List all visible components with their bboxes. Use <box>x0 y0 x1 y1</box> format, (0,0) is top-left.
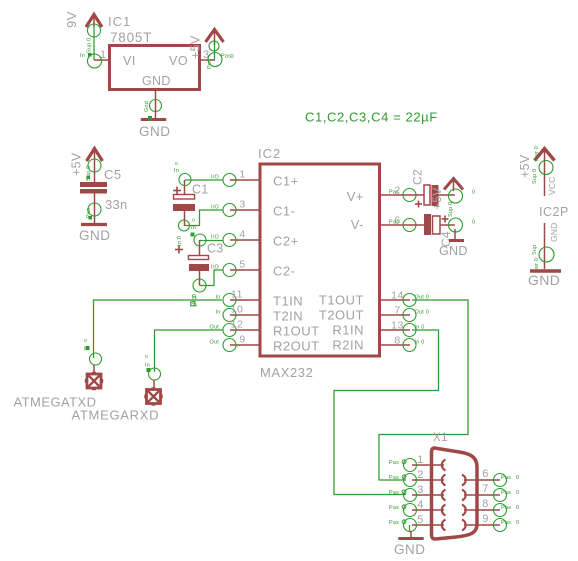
svg-text:8: 8 <box>394 335 400 347</box>
svg-text:Sup 0: Sup 0 <box>448 202 454 217</box>
svg-text:10: 10 <box>231 304 244 316</box>
svg-text:0: 0 <box>516 490 519 496</box>
svg-text:5: 5 <box>239 259 245 271</box>
svg-text:33n: 33n <box>105 197 128 212</box>
svg-text:9: 9 <box>482 513 489 525</box>
svg-text:Pas: Pas <box>389 220 399 226</box>
svg-text:+5V: +5V <box>70 152 84 176</box>
svg-text:2: 2 <box>417 469 424 481</box>
svg-text:13: 13 <box>391 320 404 332</box>
svg-text:I/O: I/O <box>211 205 219 211</box>
svg-text:IC2P: IC2P <box>539 205 569 219</box>
svg-text:I/O: I/O <box>211 175 219 181</box>
svg-text:GND: GND <box>439 244 468 258</box>
svg-text:Pas: Pas <box>389 505 399 511</box>
svg-text:Pas: Pas <box>389 190 399 196</box>
svg-text:Pwr 0: Pwr 0 <box>534 146 540 161</box>
svg-text:3: 3 <box>239 199 245 211</box>
svg-text:C3: C3 <box>207 242 223 256</box>
svg-text:+5V: +5V <box>518 154 532 178</box>
svg-text:V-: V- <box>351 217 364 232</box>
svg-text:Gnd: Gnd <box>144 101 150 112</box>
svg-text:Pas: Pas <box>501 505 511 511</box>
svg-text:9V: 9V <box>64 11 79 28</box>
svg-text:C2-: C2- <box>273 264 295 279</box>
svg-text:T1IN: T1IN <box>273 294 303 309</box>
svg-text:GND: GND <box>549 223 559 243</box>
svg-text:o: o <box>192 218 195 224</box>
svg-text:I/O: I/O <box>211 265 219 271</box>
svg-text:C5: C5 <box>104 167 122 182</box>
svg-text:VO: VO <box>169 54 188 68</box>
svg-text:C2+: C2+ <box>273 234 299 249</box>
svg-text:0: 0 <box>516 505 519 511</box>
svg-text:4: 4 <box>417 499 424 511</box>
svg-text:IC2: IC2 <box>258 146 281 161</box>
svg-text:0: 0 <box>516 520 519 526</box>
svg-text:1: 1 <box>239 169 245 181</box>
svg-text:9: 9 <box>239 334 245 346</box>
svg-text:In: In <box>80 53 85 59</box>
svg-text:o: o <box>175 161 178 167</box>
svg-text:X1: X1 <box>433 432 448 444</box>
svg-text:T2OUT: T2OUT <box>319 308 364 323</box>
svg-text:Out 0: Out 0 <box>415 310 429 316</box>
svg-text:In: In <box>216 310 221 316</box>
svg-text:GND: GND <box>142 74 171 88</box>
svg-text:5: 5 <box>417 514 424 526</box>
svg-text:+5V: +5V <box>430 187 444 210</box>
svg-text:ATMEGARXD: ATMEGARXD <box>72 408 160 423</box>
svg-text:Sup: Sup <box>532 245 538 255</box>
svg-text:7: 7 <box>394 305 400 317</box>
svg-text:In: In <box>84 347 89 353</box>
svg-text:R2IN: R2IN <box>332 338 364 353</box>
svg-text:GND: GND <box>139 124 171 139</box>
svg-text:GND: GND <box>528 272 560 288</box>
svg-text:Pas: Pas <box>389 475 399 481</box>
svg-text:T1OUT: T1OUT <box>319 293 364 308</box>
svg-text:Sup 0: Sup 0 <box>532 169 538 184</box>
svg-text:T2IN: T2IN <box>273 309 303 324</box>
svg-text:Pas: Pas <box>389 490 399 496</box>
svg-text:MAX232: MAX232 <box>260 365 313 380</box>
svg-text:In 0: In 0 <box>177 236 183 246</box>
svg-text:Pas: Pas <box>501 490 511 496</box>
svg-text:1: 1 <box>417 454 424 466</box>
svg-text:R1IN: R1IN <box>332 323 364 338</box>
svg-text:+5V: +5V <box>189 35 203 59</box>
svg-text:R1OUT: R1OUT <box>273 324 320 339</box>
svg-text:V+: V+ <box>347 189 364 204</box>
svg-text:4: 4 <box>239 229 245 241</box>
svg-text:C1+: C1+ <box>273 174 299 189</box>
svg-text:H: H <box>192 295 197 302</box>
svg-text:0: 0 <box>231 54 234 60</box>
svg-text:C1-: C1- <box>273 204 295 219</box>
svg-text:7805T: 7805T <box>110 30 152 45</box>
svg-text:Pas: Pas <box>389 460 399 466</box>
svg-text:Pas: Pas <box>501 475 511 481</box>
svg-text:In: In <box>191 225 196 231</box>
svg-text:7: 7 <box>482 483 489 495</box>
svg-text:R2OUT: R2OUT <box>273 339 320 354</box>
svg-text:VI: VI <box>123 54 136 68</box>
svg-text:3: 3 <box>417 484 424 496</box>
svg-text:VCC: VCC <box>547 176 557 195</box>
svg-text:0: 0 <box>472 220 475 226</box>
svg-text:Pas: Pas <box>501 520 511 526</box>
svg-text:0: 0 <box>516 475 519 481</box>
svg-text:o: o <box>145 354 148 360</box>
svg-text:o: o <box>84 338 87 344</box>
svg-text:C2: C2 <box>411 169 425 185</box>
svg-text:8: 8 <box>482 498 489 510</box>
svg-text:GND: GND <box>394 542 426 557</box>
svg-text:0: 0 <box>472 190 475 196</box>
svg-text:Pwr: Pwr <box>207 59 213 69</box>
svg-text:GND: GND <box>79 228 111 243</box>
svg-text:14: 14 <box>391 290 404 302</box>
svg-text:Sup 0: Sup 0 <box>87 38 93 53</box>
svg-text:12: 12 <box>231 319 244 331</box>
svg-text:In: In <box>174 168 179 174</box>
svg-text:In: In <box>145 363 150 369</box>
svg-text:Pas: Pas <box>389 520 399 526</box>
svg-text:11: 11 <box>231 289 243 301</box>
svg-text:6: 6 <box>482 468 489 480</box>
svg-text:C1: C1 <box>192 183 208 197</box>
svg-text:IC1: IC1 <box>108 14 131 29</box>
svg-text:In 0: In 0 <box>415 340 425 346</box>
svg-text:I/O: I/O <box>211 235 219 241</box>
svg-text:Out: Out <box>210 340 220 346</box>
svg-text:C1,C2,C3,C4 = 22µF: C1,C2,C3,C4 = 22µF <box>305 110 438 125</box>
